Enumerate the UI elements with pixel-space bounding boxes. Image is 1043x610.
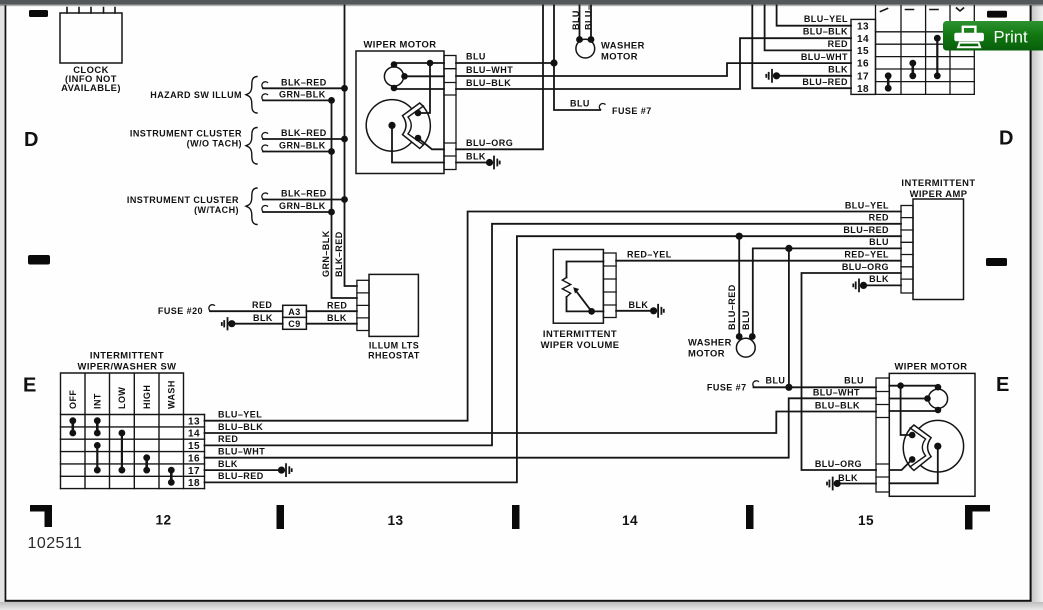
S1a contacts INT 15-17: [94, 442, 101, 474]
svg-text:BLU–ORG: BLU–ORG: [466, 138, 513, 148]
intermittent wiper/washer switch S1a (bottom left): [61, 350, 205, 490]
svg-text:RHEOSTAT: RHEOSTAT: [368, 351, 420, 361]
wire BLU fuse7 to wiper motor U3: [754, 386, 877, 388]
viewer top bar: [0, 0, 1043, 5]
print button: [943, 21, 1043, 51]
ground G-R1: [650, 305, 664, 317]
wire RED-YEL U2 to volume R1: [616, 260, 901, 262]
ruler tick 13/14: [512, 505, 520, 529]
U3 brush sector: [903, 425, 931, 470]
wire BLU-ORG U2 down to wiper motor U3: [802, 273, 902, 470]
U1 internal wire armature to BLK pin: [392, 125, 444, 162]
U3 connector column: [876, 378, 889, 492]
svg-text:12: 12: [155, 513, 171, 528]
wire BLK C9 to rheostat: [306, 323, 357, 325]
wire BLU U2 to washer motor M3: [753, 248, 901, 336]
svg-text:BLU–YEL: BLU–YEL: [845, 200, 889, 210]
svg-text:BLU–YEL: BLU–YEL: [218, 409, 262, 419]
fuse #20 terminal hook: [209, 305, 215, 311]
svg-text:INTERMITTENT: INTERMITTENT: [543, 328, 617, 339]
svg-text:LOW: LOW: [117, 387, 127, 409]
svg-text:WIPER/WASHER SW: WIPER/WASHER SW: [78, 361, 177, 372]
S1 contacts WASH 17-18: [885, 72, 892, 91]
S1a contacts OFF 13-14: [69, 417, 76, 436]
fuse #7 terminal hook (lower): [753, 381, 759, 387]
wire BLU-WHT U1 to SW row16: [456, 63, 851, 76]
svg-text:18: 18: [857, 84, 869, 95]
svg-text:INSTRUMENT CLUSTER: INSTRUMENT CLUSTER: [127, 195, 239, 205]
junction BLU at fuse7 feed (lower): [785, 384, 792, 391]
svg-text:BLU: BLU: [741, 310, 751, 330]
svg-text:HAZARD SW ILLUM: HAZARD SW ILLUM: [150, 90, 242, 100]
S1 contacts LOW 14-17: [934, 35, 941, 79]
ground G-fuse20: [222, 318, 236, 330]
svg-text:15: 15: [858, 513, 874, 528]
svg-text:BLK–RED: BLK–RED: [281, 128, 327, 138]
S1a contacts INT 13-14: [94, 417, 101, 436]
svg-text:A3: A3: [288, 307, 300, 317]
svg-text:BLU–BLK: BLU–BLK: [803, 27, 848, 37]
intermittent wiper amp U2: [901, 177, 976, 300]
svg-text:BLK: BLK: [253, 313, 273, 323]
connector hook wire GRN-BLK w/o tach: [262, 145, 268, 151]
svg-text:13: 13: [857, 21, 869, 32]
connector hook wire GRN-BLK hazard: [262, 94, 268, 100]
svg-text:GRN–BLK: GRN–BLK: [279, 90, 326, 100]
svg-text:RED–YEL: RED–YEL: [844, 250, 889, 260]
U1 internal wire BLU-WHT: [406, 75, 445, 77]
svg-text:WIPER AMP: WIPER AMP: [910, 188, 968, 199]
wire GRN-BLK instrument cluster w/o tach: [263, 151, 332, 153]
junction w/o tach BLK-RED: [341, 136, 348, 143]
svg-text:17: 17: [857, 71, 869, 82]
U1 armature circle: [366, 100, 418, 152]
svg-text:WIPER MOTOR: WIPER MOTOR: [894, 361, 967, 372]
svg-text:15: 15: [857, 46, 869, 57]
wire BLU-BLK S1a row14 to wiper motor U3: [205, 412, 877, 434]
svg-text:Print: Print: [994, 28, 1029, 47]
svg-text:BLU–BLK: BLU–BLK: [466, 78, 511, 88]
wire BLK U2 to ground: [864, 284, 902, 286]
svg-text:BLK: BLK: [629, 300, 649, 310]
junction w/o tach GRN-BLK: [328, 148, 335, 155]
S1a outer grid: [61, 373, 184, 489]
U2 connector column: [901, 206, 913, 294]
junction w/tach BLK-RED: [341, 196, 348, 203]
svg-text:RED–YEL: RED–YEL: [627, 250, 672, 260]
connector A3 / C9: [283, 305, 307, 329]
wire BLU-RED S1 pin18 from page top: [752, 6, 851, 89]
svg-text:RED: RED: [327, 301, 347, 311]
wire BLK-RED instrument cluster w/tach: [263, 199, 345, 201]
svg-text:13: 13: [188, 416, 200, 427]
washer motor M2 (top) body: [576, 39, 595, 58]
ground G-S1: [766, 70, 780, 82]
registration mark top-right: [987, 11, 1007, 18]
svg-text:16: 16: [857, 59, 869, 70]
connector hook wire BLK-RED w/o tach: [262, 132, 268, 138]
U1 brush sector: [403, 103, 431, 148]
ground G-S1a: [278, 464, 292, 476]
svg-text:INT: INT: [93, 393, 103, 409]
svg-text:14: 14: [188, 429, 200, 440]
svg-text:GRN–BLK: GRN–BLK: [321, 230, 331, 277]
svg-text:BLU–YEL: BLU–YEL: [804, 14, 848, 24]
U1 connector column: [444, 56, 456, 170]
svg-text:WASH: WASH: [167, 380, 177, 409]
svg-text:BLU–RED: BLU–RED: [218, 471, 264, 481]
wire RED S1 pin15 from page top: [765, 6, 851, 51]
wire BLU-WHT S1a row16 to wiper motor U3: [205, 398, 877, 457]
wire RED fuse20 to connector A3: [210, 310, 283, 312]
S1 contact grid: [876, 32, 975, 95]
svg-text:BLU–ORG: BLU–ORG: [815, 459, 862, 469]
svg-text:16: 16: [188, 453, 200, 464]
ruler tick 14/15: [746, 505, 754, 529]
svg-text:BLU–: BLU–: [584, 5, 594, 30]
svg-text:BLU: BLU: [570, 99, 590, 109]
svg-text:FUSE #7: FUSE #7: [612, 106, 652, 116]
S1a contacts WASH 17-18: [168, 467, 175, 486]
svg-text:13: 13: [387, 513, 403, 528]
svg-text:RED: RED: [828, 39, 848, 49]
wire GRN-BLK hazard sw illum: [263, 99, 332, 101]
fuse #7 terminal hook (upper): [599, 103, 605, 109]
svg-text:WASHER: WASHER: [688, 337, 732, 348]
R1 internal circuit with potentiometer: [567, 262, 604, 312]
svg-text:BLK–RED: BLK–RED: [281, 189, 327, 199]
svg-text:BLK: BLK: [828, 65, 848, 75]
svg-text:BLU–ORG: BLU–ORG: [842, 262, 889, 272]
brace instrument cluster w/tach: [246, 188, 257, 225]
svg-text:BLK: BLK: [327, 313, 347, 323]
svg-text:14: 14: [622, 513, 638, 528]
wire BLU-RED branch down to washer motor M3: [738, 236, 740, 336]
svg-text:D: D: [24, 129, 39, 151]
wiper motor U3 (bottom right): [876, 361, 975, 497]
wire BLU junction down to fuse7 line: [788, 248, 790, 387]
splice node BLU / vertical from page top to fuse7 branch: [554, 6, 600, 111]
wire RED A3 to rheostat: [306, 310, 357, 312]
right gutter: [1032, 0, 1043, 610]
potentiometer resistor zigzag: [562, 278, 570, 298]
wire BLU-ORG U1 up to page top: [456, 6, 543, 150]
registration mark mid-right: [986, 258, 1007, 266]
intermittent wiper/washer switch S1 (upper right, top cut off): [851, 6, 974, 95]
svg-text:BLU: BLU: [869, 237, 889, 247]
wire BLU-BLK U1 to SW row14: [456, 38, 851, 89]
svg-text:FUSE #7: FUSE #7: [707, 382, 747, 392]
svg-text:BLU–RED: BLU–RED: [727, 284, 737, 330]
svg-text:BLU–WHT: BLU–WHT: [218, 447, 265, 457]
ruler corner mark bottom-right: [965, 505, 990, 530]
wire BLK ground to connector C9: [232, 323, 283, 325]
svg-text:BLU–BLK: BLU–BLK: [815, 401, 860, 411]
wire BLK S1 pin17 to ground: [777, 75, 852, 77]
brace hazard sw illum: [246, 77, 257, 114]
U3 internal wire BLU-ORG from sector: [889, 459, 912, 470]
wire BLK U3 to ground: [837, 483, 876, 485]
svg-text:GRN–BLK: GRN–BLK: [279, 201, 326, 211]
svg-text:102511: 102511: [28, 535, 83, 552]
registration mark mid-left: [28, 255, 50, 265]
svg-text:FUSE #20: FUSE #20: [158, 306, 203, 316]
U1 body: [356, 51, 444, 174]
S1a contacts LOW 14-17: [119, 430, 126, 474]
R1 connector column: [603, 253, 616, 318]
svg-text:BLU–WHT: BLU–WHT: [466, 65, 513, 75]
svg-text:BLU–RED: BLU–RED: [843, 225, 889, 235]
svg-text:ILLUM LTS: ILLUM LTS: [369, 341, 419, 351]
svg-text:MOTOR: MOTOR: [601, 51, 638, 62]
junction BLU to fuse7 feed: [785, 245, 792, 252]
ruler corner mark bottom-left: [30, 505, 52, 527]
bottom gutter: [0, 602, 1043, 610]
svg-text:BLU–BLK: BLU–BLK: [218, 422, 263, 432]
wire BLK-RED instrument cluster w/o tach: [263, 138, 345, 140]
wire GRN-BLK vertical bus to rheostat: [332, 100, 357, 298]
svg-text:BLU–WHT: BLU–WHT: [801, 52, 848, 62]
svg-text:C9: C9: [288, 319, 300, 329]
page right border: [1030, 5, 1032, 602]
U1 internal wire BLU-ORG from sector: [418, 138, 444, 149]
svg-text:(W/O TACH): (W/O TACH): [187, 139, 242, 149]
svg-text:HIGH: HIGH: [142, 385, 152, 409]
svg-text:BLK: BLK: [869, 274, 889, 284]
intermittent wiper volume R1: [541, 250, 620, 351]
U1 park switch circle: [384, 67, 403, 86]
washer motor M2 (top) leads: [580, 6, 592, 40]
wire BLU-RED U2 to SW row18 (bottom table): [205, 236, 902, 482]
svg-text:14: 14: [857, 34, 869, 45]
svg-text:BLU–WHT: BLU–WHT: [813, 388, 860, 398]
svg-text:BLU: BLU: [766, 375, 786, 385]
ground G-U1: [486, 157, 500, 169]
junction w/tach GRN-BLK: [328, 209, 335, 216]
illum lts rheostat connector pins: [357, 280, 369, 330]
S1 cut column label stubs: [881, 8, 964, 12]
S1a pin number box: [204, 415, 206, 489]
svg-text:15: 15: [188, 441, 200, 452]
svg-text:AVAILABLE): AVAILABLE): [61, 82, 121, 93]
wire RED U2 to SW row15 (bottom table): [205, 224, 902, 446]
ruler tick 12/13: [277, 505, 285, 529]
page left border: [5, 5, 7, 602]
connector hook wire BLK-RED w/tach: [262, 193, 268, 199]
S1a contacts HIGH 16-17: [143, 454, 150, 473]
U3 internal wire armature to BLK pin: [889, 446, 938, 483]
U3 internal wire BLU-BLK: [889, 410, 938, 412]
svg-text:BLK: BLK: [466, 151, 486, 161]
svg-text:GRN–BLK: GRN–BLK: [279, 141, 326, 151]
svg-text:WASHER: WASHER: [601, 40, 645, 51]
potentiometer wiper arrow: [577, 292, 592, 312]
svg-text:RED: RED: [252, 300, 272, 310]
svg-text:BLK: BLK: [218, 459, 238, 469]
S1 contacts HIGH 16-17: [909, 60, 916, 80]
wire BLK-RED vertical bus from page top to rheostat: [345, 6, 357, 287]
svg-text:E: E: [996, 374, 1010, 396]
wire BLU-YEL U2 to SW row13 (bottom table): [205, 212, 902, 421]
svg-text:OFF: OFF: [68, 390, 78, 409]
clock (info not available): [60, 8, 122, 94]
S1 pin number box: [851, 19, 876, 94]
svg-text:INTERMITTENT: INTERMITTENT: [90, 350, 164, 361]
wire BLK S1a row17 to ground: [205, 469, 282, 471]
connector hook wire BLK-RED hazard: [262, 82, 268, 88]
svg-text:WIPER VOLUME: WIPER VOLUME: [541, 339, 620, 350]
R1 body: [553, 250, 603, 324]
page bottom border: [5, 600, 1032, 602]
svg-text:RED: RED: [218, 434, 238, 444]
svg-text:E: E: [23, 375, 37, 397]
svg-text:17: 17: [188, 466, 200, 477]
wire GRN-BLK instrument cluster w/tach: [263, 211, 332, 213]
wire BLK R1 to ground: [616, 310, 654, 312]
junction hazard BLK-RED: [341, 85, 348, 92]
svg-text:BLU–RED: BLU–RED: [802, 77, 848, 87]
brace instrument cluster w/o tach: [246, 128, 257, 165]
U3 armature circle: [912, 420, 964, 472]
wire BLK-RED hazard sw illum: [263, 87, 345, 89]
wire BLU U1 to splice: [456, 62, 554, 64]
U1 internal wire BLU: [394, 63, 444, 113]
U1 internal wire BLU-BLK: [394, 88, 444, 90]
svg-text:BLK: BLK: [838, 473, 858, 483]
U3 internal wire BLU-WHT: [889, 398, 927, 400]
svg-text:BLK–RED: BLK–RED: [281, 77, 327, 87]
U3 internal wire BLU: [889, 386, 938, 435]
svg-text:INTERMITTENT: INTERMITTENT: [901, 177, 975, 188]
wire BLU-YEL S1 pin13 from page top: [777, 6, 851, 26]
U2 body: [913, 199, 964, 300]
svg-text:BLU: BLU: [466, 52, 486, 62]
ground G-U3: [827, 478, 841, 490]
svg-text:BLU: BLU: [571, 10, 581, 30]
connector hook wire GRN-BLK w/tach: [262, 205, 268, 211]
svg-text:BLU: BLU: [844, 375, 864, 385]
svg-text:INSTRUMENT CLUSTER: INSTRUMENT CLUSTER: [130, 129, 242, 139]
junction hazard GRN-BLK: [328, 97, 335, 104]
illum lts rheostat body: [369, 274, 418, 336]
junction BLU-RED to washer motor M3: [736, 233, 743, 240]
svg-text:18: 18: [188, 478, 200, 489]
svg-text:(W/TACH): (W/TACH): [194, 205, 239, 215]
svg-text:WIPER MOTOR: WIPER MOTOR: [363, 39, 436, 50]
svg-text:D: D: [999, 128, 1014, 150]
svg-text:MOTOR: MOTOR: [688, 348, 725, 359]
svg-text:BLK–RED: BLK–RED: [334, 231, 344, 277]
U3 park switch circle: [928, 389, 947, 408]
registration mark top-left: [29, 10, 48, 17]
ground G-U2: [853, 279, 867, 291]
svg-text:RED: RED: [869, 213, 889, 223]
U3 body: [889, 373, 975, 496]
washer motor M3 (middle): [688, 284, 756, 358]
wiper motor U1 (top): [356, 39, 456, 174]
printer icon on print button: [955, 27, 984, 47]
wire BLK U1 to ground: [456, 162, 490, 164]
